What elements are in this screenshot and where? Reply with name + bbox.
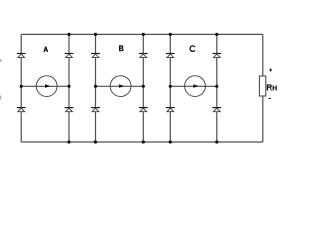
diode D9 (leg upper) bbox=[166, 53, 175, 58]
wire leg 3 bbox=[95, 34, 97, 142]
junction middle x=69.0 bbox=[67, 85, 70, 88]
junction bottom rail x=216.8 bbox=[215, 140, 218, 143]
wire middle phase B bbox=[96, 85, 144, 87]
wire load branch lower bbox=[262, 96, 264, 142]
scan speck left edge 1 bbox=[0, 60, 2, 62]
label phase A bbox=[44, 47, 48, 52]
wire middle phase C bbox=[170, 85, 217, 87]
junction top rail x=143.3 bbox=[142, 33, 145, 36]
source G2 (phase B) bbox=[110, 76, 131, 97]
diode D6 (leg lower) bbox=[91, 107, 100, 112]
label RN value bbox=[267, 84, 277, 90]
label plus bbox=[269, 69, 272, 72]
wire leg 6 bbox=[216, 34, 218, 142]
source G1 (phase A) bbox=[36, 76, 57, 97]
scan speck left edge 2 bbox=[0, 96, 1, 100]
junction top rail x=216.8 bbox=[215, 33, 218, 36]
junction middle x=21.2 bbox=[20, 85, 23, 88]
diode D2 (leg lower) bbox=[17, 107, 26, 112]
diode D8 (leg lower) bbox=[139, 107, 148, 112]
source G3 (phase C) bbox=[185, 76, 206, 97]
diode D1 (leg upper) bbox=[17, 53, 26, 58]
junction bottom rail x=69.0 bbox=[67, 140, 70, 143]
label minus bbox=[269, 98, 271, 99]
wire bottom rail bbox=[21, 141, 263, 143]
junction bottom rail x=170.3 bbox=[169, 140, 172, 143]
resistor RN (load) bbox=[259, 76, 265, 96]
diode D12 (leg lower) bbox=[212, 107, 221, 112]
wire leg 5 bbox=[169, 34, 171, 142]
wire load branch upper bbox=[262, 34, 264, 76]
diode D11 (leg upper) bbox=[212, 53, 221, 58]
junction middle x=216.8 bbox=[215, 85, 218, 88]
junction top rail x=95.5 bbox=[94, 33, 97, 36]
junction bottom rail x=95.5 bbox=[94, 140, 97, 143]
wire leg 2 bbox=[68, 34, 70, 142]
diode D7 (leg upper) bbox=[139, 53, 148, 58]
wire middle phase A bbox=[21, 85, 69, 87]
wire top rail bbox=[21, 33, 263, 35]
diode D10 (leg lower) bbox=[166, 107, 175, 112]
wire leg 1 bbox=[20, 34, 22, 142]
junction top rail x=69.0 bbox=[67, 33, 70, 36]
junction top rail x=170.3 bbox=[169, 33, 172, 36]
label phase B bbox=[119, 45, 124, 51]
diode D3 (leg upper) bbox=[65, 53, 74, 58]
label phase C bbox=[190, 46, 195, 52]
junction middle x=170.3 bbox=[169, 85, 172, 88]
diode D5 (leg upper) bbox=[91, 53, 100, 58]
junction middle x=143.3 bbox=[142, 85, 145, 88]
diode D4 (leg lower) bbox=[65, 107, 74, 112]
wire leg 4 bbox=[142, 34, 144, 142]
junction middle x=95.5 bbox=[94, 85, 97, 88]
junction bottom rail x=143.3 bbox=[142, 140, 145, 143]
